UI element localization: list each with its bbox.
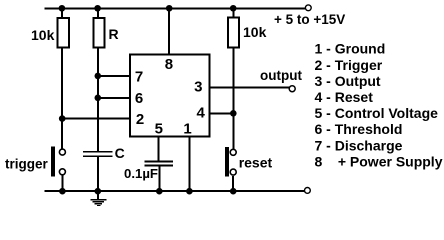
svg-text:8: 8 bbox=[165, 56, 173, 73]
junction: top rail / R1 bbox=[59, 5, 66, 12]
junction: pin 7 node bbox=[95, 73, 102, 80]
svg-text:reset: reset bbox=[239, 155, 273, 171]
wire: R2 bottom down to reset switch bbox=[232, 48, 234, 150]
switch S2 reset actuator bar bbox=[225, 147, 229, 177]
junction: rail / C and ground symbol bbox=[95, 188, 102, 195]
svg-text:trigger: trigger bbox=[5, 157, 49, 172]
capacitor C bottom plate bbox=[83, 155, 113, 157]
switch S2 bottom contact bbox=[230, 169, 236, 175]
svg-text:3 - Output: 3 - Output bbox=[315, 73, 381, 89]
svg-text:output: output bbox=[260, 68, 302, 83]
resistor R body bbox=[93, 18, 104, 47]
svg-text:2: 2 bbox=[136, 111, 144, 128]
wire: rail to R top bbox=[97, 8, 99, 18]
wire: reset switch to ground rail bbox=[232, 176, 234, 191]
switch S1 trigger actuator bar bbox=[51, 147, 55, 177]
svg-text:1 - Ground: 1 - Ground bbox=[315, 41, 386, 57]
junction: rail / C2 bbox=[156, 188, 163, 195]
wire: C2 bottom to ground rail bbox=[158, 166, 160, 191]
switch S1 top contact bbox=[59, 149, 65, 155]
svg-text:C: C bbox=[115, 145, 125, 161]
wire: +V top rail bbox=[45, 7, 306, 9]
junction: top rail / R bbox=[94, 5, 101, 12]
wire: pin 3 output bbox=[210, 86, 290, 88]
junction: pin 2 node on R1-trigger wire bbox=[59, 115, 66, 122]
wire: rail to R2 top bbox=[232, 8, 234, 17]
junction: pin 4 node bbox=[230, 110, 237, 117]
svg-text:2 - Trigger: 2 - Trigger bbox=[315, 57, 383, 73]
wire: R bottom down to capacitor C bbox=[97, 48, 99, 152]
ground symbol bbox=[90, 191, 106, 206]
svg-text:10k: 10k bbox=[243, 24, 267, 40]
svg-text:4 - Reset: 4 - Reset bbox=[315, 89, 374, 105]
junction: rail / pin 1 bbox=[186, 188, 193, 195]
svg-text:6: 6 bbox=[135, 90, 143, 107]
wire: pin 1 to ground rail bbox=[188, 136, 190, 191]
terminal: output open circle bbox=[289, 86, 295, 92]
terminal: ground rail open circle bbox=[305, 188, 311, 194]
capacitor C top plate bbox=[83, 151, 113, 153]
junction: top rail / pin 8 bbox=[166, 5, 173, 12]
op-amp/timer IC U1 (555) body bbox=[130, 54, 210, 136]
junction: top rail / R2 bbox=[230, 5, 237, 12]
svg-text:1: 1 bbox=[183, 121, 191, 138]
junction: pin 6 node bbox=[95, 95, 102, 102]
svg-text:+ 5 to +15V: + 5 to +15V bbox=[274, 12, 345, 27]
svg-text:7 - Discharge: 7 - Discharge bbox=[315, 137, 403, 153]
wire: pin 8 to top rail bbox=[168, 8, 170, 54]
wire: pin 6 stub to IC bbox=[98, 97, 130, 99]
wire: rail to R1 top bbox=[61, 8, 63, 18]
resistor R1 body bbox=[57, 18, 69, 47]
wire: C bottom to ground rail bbox=[97, 157, 99, 191]
capacitor C2 bottom plate (0.1uF) bbox=[145, 165, 174, 167]
wire: R1 bottom to trigger switch bbox=[61, 48, 63, 150]
switch S1 bottom contact bbox=[59, 169, 65, 175]
wire: ground bottom rail bbox=[45, 190, 305, 192]
svg-text:7: 7 bbox=[135, 69, 143, 86]
resistor R2 body (10k right) bbox=[228, 18, 239, 48]
junction: rail / reset bbox=[230, 188, 237, 195]
svg-text:0.1µF: 0.1µF bbox=[124, 166, 158, 181]
wire: trigger switch to ground rail bbox=[61, 176, 63, 192]
svg-text:5 - Control Voltage: 5 - Control Voltage bbox=[315, 105, 439, 121]
svg-text:R: R bbox=[109, 26, 119, 42]
wire: pin 2 stub to IC bbox=[62, 118, 130, 120]
junction: rail / trigger bbox=[59, 188, 66, 195]
svg-text:5: 5 bbox=[155, 121, 163, 138]
wire: pin 5 stub down to bypass cap bbox=[158, 136, 160, 161]
capacitor C2 top plate (0.1uF) bbox=[145, 161, 174, 163]
svg-text:6 - Threshold: 6 - Threshold bbox=[315, 121, 403, 137]
svg-text:4: 4 bbox=[197, 105, 206, 122]
switch S2 top contact bbox=[230, 149, 236, 155]
wire: pin 4 stub to IC bbox=[210, 112, 234, 114]
svg-text:3: 3 bbox=[194, 79, 202, 96]
svg-text:10k: 10k bbox=[31, 27, 55, 43]
wire: pin 7 stub to IC bbox=[98, 75, 130, 77]
svg-text:8 + Power Supply: 8 + Power Supply bbox=[315, 153, 443, 169]
terminal: +V supply open circle bbox=[305, 5, 311, 11]
